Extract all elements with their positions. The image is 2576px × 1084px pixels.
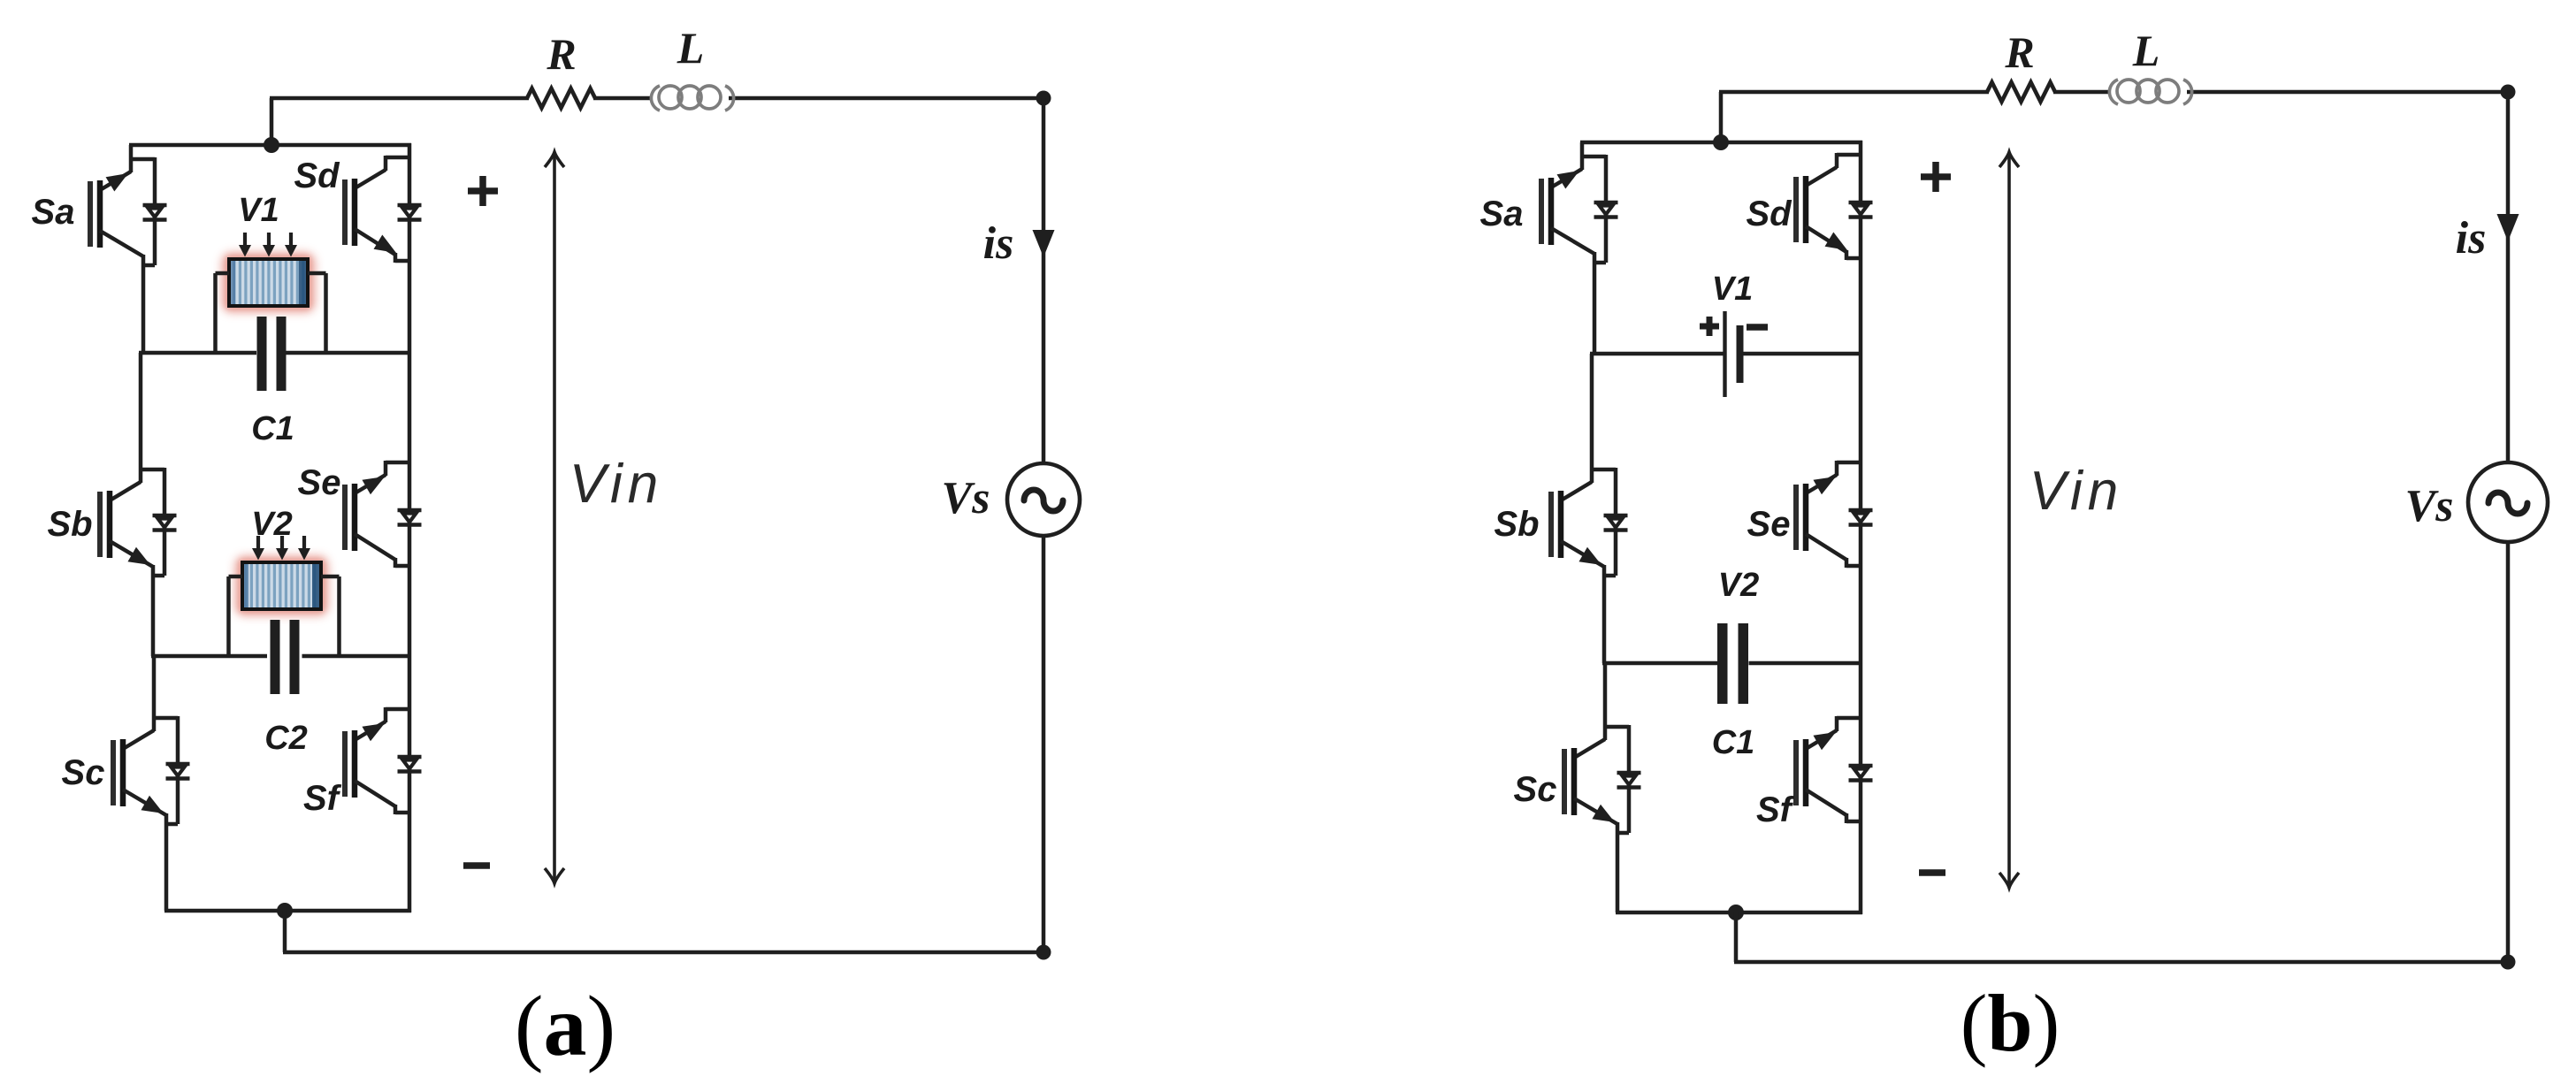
svg-text:V2: V2	[251, 506, 292, 543]
svg-text:Vs: Vs	[942, 473, 990, 523]
svg-text:L: L	[2132, 26, 2160, 75]
svg-text:Vin: Vin	[569, 454, 664, 515]
svg-text:V1: V1	[238, 192, 279, 229]
svg-text:R: R	[2004, 27, 2034, 77]
svg-text:Se: Se	[298, 463, 341, 502]
svg-text:Sf: Sf	[303, 779, 342, 818]
svg-text:Sc: Sc	[62, 753, 105, 792]
svg-text:C2: C2	[264, 720, 308, 757]
svg-text:R: R	[546, 29, 576, 79]
svg-text:C1: C1	[1712, 724, 1755, 761]
svg-text:L: L	[676, 23, 705, 73]
svg-text:is: is	[2456, 213, 2487, 263]
svg-text:Se: Se	[1747, 505, 1791, 544]
svg-text:Sc: Sc	[1514, 770, 1557, 809]
svg-text:is: is	[983, 218, 1014, 269]
svg-text:Sa: Sa	[32, 193, 75, 232]
svg-text:Sd: Sd	[294, 156, 340, 195]
svg-text:Vin: Vin	[2029, 461, 2124, 522]
svg-text:Sb: Sb	[47, 505, 92, 544]
svg-text:V1: V1	[1712, 271, 1753, 308]
svg-text:Sd: Sd	[1746, 195, 1792, 233]
svg-text:Sa: Sa	[1480, 195, 1524, 233]
svg-text:Vs: Vs	[2405, 481, 2454, 531]
svg-text:(a): (a)	[515, 979, 615, 1074]
svg-text:Sf: Sf	[1756, 790, 1795, 829]
svg-text:C1: C1	[251, 410, 294, 447]
svg-text:(b): (b)	[1961, 978, 2060, 1068]
svg-text:Sb: Sb	[1494, 505, 1539, 544]
svg-text:V2: V2	[1718, 567, 1759, 604]
